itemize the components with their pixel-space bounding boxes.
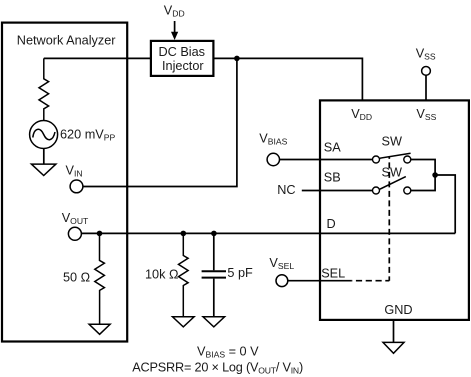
pin SEL label <box>321 266 345 280</box>
Network Analyzer box <box>2 23 127 342</box>
node VDD label (top) <box>164 4 185 19</box>
wire: VSS terminal to DUT <box>425 75 427 100</box>
svg-text:D: D <box>327 217 336 231</box>
svg-text:10k Ω: 10k Ω <box>145 267 178 281</box>
wire: switch common to D pin <box>435 175 455 233</box>
node VSS terminal (top right) <box>416 47 436 76</box>
switch SW (SA) <box>373 135 411 163</box>
ground (GND pin) <box>383 342 404 353</box>
junction dot (10k) <box>181 231 187 237</box>
wire: VOUT to D pin <box>81 232 455 234</box>
ground (10k) <box>173 317 195 327</box>
note: ACPSRR formula <box>132 361 303 376</box>
wire: DC Bias Injector to DUT VDD pin <box>215 58 363 100</box>
resistor 50 ohm <box>63 233 104 324</box>
junction dot (switch common) <box>432 172 438 178</box>
resistor 10k ohm <box>145 233 188 316</box>
wire: VSEL to SEL pin <box>288 280 351 282</box>
node NC <box>277 183 295 197</box>
junction dot (VDD net) <box>234 56 240 62</box>
node VBIAS terminal <box>259 131 287 165</box>
ground (AC source) <box>31 164 56 175</box>
DUT box U1 <box>320 100 469 320</box>
wire: GND pin to ground <box>393 321 395 342</box>
AC source V1 620 mVpp <box>30 121 116 149</box>
VDD arrow into DC Bias Injector <box>171 21 178 40</box>
junction dot (cap) <box>211 231 217 237</box>
capacitor 5 pF <box>202 233 253 316</box>
svg-text:ACPSRR= 20 × Log (VOUT/ VIN): ACPSRR= 20 × Log (VOUT/ VIN) <box>132 361 303 376</box>
svg-text:50 Ω: 50 Ω <box>63 270 90 284</box>
junction dot (50 ohm) <box>97 231 103 237</box>
svg-text:SW: SW <box>382 166 402 180</box>
pin VDD label <box>351 107 372 122</box>
ground (50 ohm) <box>89 324 110 334</box>
switch SW (SB) <box>373 166 411 194</box>
svg-text:Injector: Injector <box>162 59 204 73</box>
svg-text:SEL: SEL <box>321 266 345 280</box>
wire: source to ground <box>43 149 45 164</box>
note: VBIAS = 0 V <box>197 344 259 359</box>
wire: NC to SB switch <box>302 190 373 192</box>
node VIN terminal <box>66 163 83 193</box>
node VSEL terminal <box>269 256 294 287</box>
pin D label <box>327 217 336 231</box>
node VOUT terminal <box>62 211 89 240</box>
pin GND label <box>384 303 412 317</box>
svg-text:Network Analyzer: Network Analyzer <box>17 33 116 47</box>
DC Bias Injector box U2 <box>151 41 214 76</box>
svg-text:NC: NC <box>277 183 295 197</box>
svg-text:SW: SW <box>382 135 402 149</box>
svg-text:5 pF: 5 pF <box>227 266 253 280</box>
svg-text:SA: SA <box>324 140 341 154</box>
wire: VIN to DC bias output node <box>83 58 237 186</box>
svg-text:GND: GND <box>384 303 412 317</box>
wire: VBIAS to SA switch <box>280 159 373 161</box>
wire: SEL dashed control line <box>351 157 389 281</box>
svg-text:SB: SB <box>324 171 341 185</box>
wire: analyzer source to DC Bias Injector <box>44 57 151 59</box>
pin VSS label <box>416 107 436 122</box>
pin SA label <box>324 140 341 154</box>
pin SB label <box>324 171 341 185</box>
svg-text:DC Bias: DC Bias <box>159 45 206 59</box>
resistor (source impedance, unlabeled) <box>39 58 49 120</box>
wire: SA switch output to common node <box>411 160 435 191</box>
ground (cap) <box>203 317 225 327</box>
